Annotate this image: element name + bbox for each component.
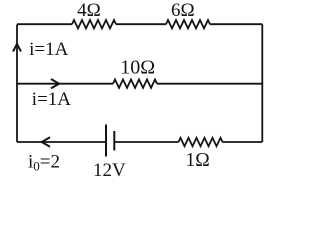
- svg-text:i=1A: i=1A: [29, 39, 68, 60]
- svg-text:i0=2: i0=2: [28, 152, 60, 174]
- svg-text:4Ω: 4Ω: [77, 0, 101, 21]
- svg-text:10Ω: 10Ω: [120, 57, 155, 79]
- svg-text:i=1A: i=1A: [32, 89, 71, 110]
- svg-text:1Ω: 1Ω: [186, 150, 210, 171]
- svg-text:12V: 12V: [93, 160, 126, 181]
- svg-text:6Ω: 6Ω: [171, 0, 195, 21]
